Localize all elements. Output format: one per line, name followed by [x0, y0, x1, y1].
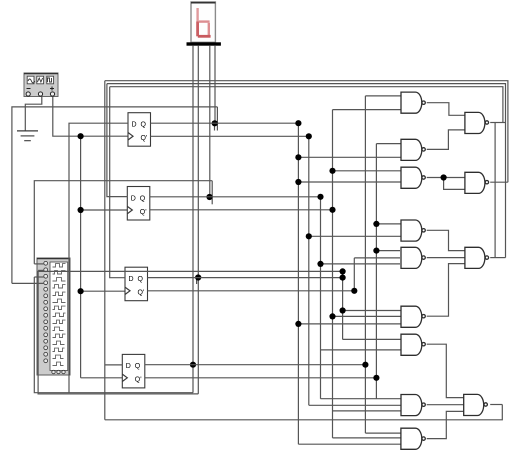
junction FF3Q' corner	[351, 288, 357, 294]
node bus FF2Q vertical	[320, 197, 322, 399]
nand gate U7b	[401, 139, 425, 160]
junction G3 output	[441, 174, 447, 180]
feedback top line 3	[110, 87, 503, 123]
wire FF2Q to gate U8b input	[321, 263, 401, 265]
wire to gate U7a in1 from FF4Q bus	[365, 95, 401, 97]
wire display input B	[209, 46, 211, 197]
wire display input C	[197, 46, 199, 394]
D flip-flop U4	[122, 354, 145, 388]
wire FF2Q' to gate U9c in2	[333, 437, 401, 439]
wire clock to FF4	[81, 377, 123, 379]
D flip-flop U2	[127, 187, 150, 221]
wire FF2Q to gate U9b in1	[321, 398, 402, 400]
svg-text:Q': Q'	[138, 290, 145, 297]
wire U6a output	[490, 122, 505, 124]
wire FF4 Q net to analyzer ch3	[34, 277, 193, 393]
wire clock rail vertical	[80, 136, 82, 378]
wire FF2Q to gate U9x input	[321, 349, 402, 351]
wire display input A	[214, 46, 216, 124]
segment e (red)	[196, 22, 199, 37]
junction FF1Q G6	[295, 321, 301, 327]
junction FF3Q T2	[340, 268, 346, 274]
svg-text:Q: Q	[141, 122, 147, 129]
wire FF2 Q net drop	[211, 181, 213, 205]
seven-segment display U5	[191, 2, 215, 42]
logic analyzer XLA1	[37, 258, 70, 375]
nand gate U8a	[401, 220, 425, 241]
wire FF4Q to gate U9c in1	[365, 432, 401, 434]
function generator XFG1	[24, 73, 58, 97]
wire G4 output to U6c	[427, 230, 465, 250]
svg-text:Q: Q	[138, 276, 144, 283]
junction FF4Q' corner	[373, 375, 379, 381]
wire FF1 Q net drop at right	[216, 107, 218, 131]
wire G3 output branch to U6b in2	[444, 178, 465, 190]
wire FF1Q to gate U7c input	[298, 181, 401, 183]
wire FF3Q to gate U9a in1	[343, 310, 402, 312]
wire clock to FF3	[81, 290, 125, 292]
junction FF3Q G6	[340, 307, 346, 313]
feedback top line 2	[107, 84, 506, 258]
wire FF4Q' to gate U7b in1	[376, 143, 401, 145]
wire FF1Q' to gate U9b input	[309, 404, 402, 406]
wire FF1 Q output	[151, 122, 299, 124]
ground symbol	[17, 131, 38, 141]
junction FF2Q' corner	[329, 207, 335, 213]
nand gate U6b	[465, 172, 489, 193]
feedback inner right vertical	[494, 123, 496, 258]
wire FF1 Q' output	[151, 135, 309, 137]
wire FG common to ground	[25, 97, 42, 131]
nand gate U9a	[401, 306, 425, 327]
wire FF2Q' to gate U7c in1	[333, 170, 402, 172]
nand gate U7c	[401, 167, 425, 188]
feedback bottom loop from gate U10	[105, 405, 503, 420]
svg-text:Q: Q	[140, 195, 146, 202]
nand gate U9b	[401, 395, 425, 416]
junction clock-FF1	[78, 133, 84, 139]
analyzer channel terminals	[44, 261, 65, 373]
junction display C / FF3 Q	[195, 274, 201, 280]
node bus FF2Q' vertical	[332, 110, 334, 438]
wire analyzer ch2 stub	[38, 269, 44, 271]
wire analyzer ch1 stub	[34, 263, 44, 265]
nand gate U7a	[401, 92, 425, 113]
junction display A / FF1 Q	[212, 120, 218, 126]
segment f (red)	[196, 8, 198, 22]
wire FF2 Q net to analyzer ch1	[34, 181, 212, 264]
node bus FF1Q' vertical	[308, 136, 310, 405]
node bus FF4Q' vertical	[375, 144, 377, 399]
junction FF2Q G5	[317, 261, 323, 267]
wire clock to FF2	[81, 209, 128, 211]
wire G1 output to U6a	[427, 103, 465, 116]
wire FF3 Q' output	[148, 290, 355, 292]
D flip-flop U1	[128, 113, 151, 147]
junction display D / FF4 Q	[190, 362, 196, 368]
junction FF1Q corner	[295, 120, 301, 126]
junction FF1Q' corner	[306, 133, 312, 139]
display base bar	[187, 42, 221, 45]
junction clock-FF3	[78, 288, 84, 294]
wire G5 output to U6c	[427, 257, 465, 259]
junction FF2Q' G3	[329, 168, 335, 174]
wire G9 output to U10	[427, 411, 464, 438]
wire G3 output to U6b	[427, 177, 465, 179]
node bus FF4Q vertical	[364, 96, 366, 433]
junction FF2Q' G6	[329, 313, 335, 319]
wire G8 output to U10	[427, 404, 464, 406]
svg-text:D: D	[131, 195, 136, 202]
nand gate U8b	[401, 247, 425, 268]
svg-text:Q': Q'	[140, 209, 147, 216]
segment d (red)	[198, 35, 211, 38]
feedback left vertical to FF3 D	[110, 87, 125, 278]
wire FF3 Q output	[148, 277, 343, 279]
wire FF1 D feed	[69, 123, 128, 393]
wire FF2 Q output	[150, 196, 321, 198]
junction FF1Q' G4	[306, 233, 312, 239]
wire FF1Q to gate U9c input	[298, 443, 401, 445]
wire display input D	[192, 46, 194, 393]
junction display B / FF2 Q	[206, 194, 212, 200]
feedback top line 1	[105, 81, 508, 183]
wire FF4Q' to gate U8b in1	[376, 250, 400, 252]
junction clock-FF2	[78, 207, 84, 213]
wire FF4 D stub	[105, 364, 123, 366]
wire FG plus terminal to clock rail	[53, 97, 128, 137]
junction FF4Q' G5	[373, 248, 379, 254]
junction FF4Q corner	[362, 362, 368, 368]
wire FF4 Q output	[145, 364, 365, 366]
svg-text:D: D	[126, 363, 131, 370]
stub below junction C	[196, 278, 198, 285]
wire FF4 Q' output	[145, 377, 377, 379]
nand gate U9x	[401, 334, 425, 355]
wire FF1Q to gate U7b input	[298, 156, 401, 158]
node bus FF3Q vertical	[342, 271, 344, 339]
wire FF4Q' to gate U8a in1	[376, 223, 401, 225]
wire FF2Q' to gate U9b in3	[333, 410, 402, 412]
nand gate U10	[464, 394, 488, 415]
wire FF3Q to gate U9x in1	[343, 338, 402, 340]
D flip-flop U3	[125, 267, 148, 301]
wire FF3 Q net to analyzer ch2	[38, 271, 343, 394]
svg-text:Q': Q'	[141, 135, 148, 142]
node bus FF3Q' vertical	[353, 258, 355, 291]
svg-text:D: D	[132, 122, 137, 129]
wire analyzer ch4 stub	[12, 282, 44, 284]
svg-text:D: D	[129, 276, 134, 283]
analyzer waveform traces	[53, 264, 66, 366]
node bus FF1Q vertical	[297, 123, 299, 444]
wire analyzer ch3 stub	[34, 276, 44, 278]
junction FF1Q G2	[295, 154, 301, 160]
wire FF2Q' to gate U9a in2	[333, 315, 402, 317]
wire U10 output	[490, 404, 502, 406]
wire G7 output to U10	[427, 344, 464, 397]
svg-text:Q: Q	[135, 363, 141, 370]
wire FF1Q' to gate U8a input	[309, 235, 401, 237]
wire FF3Q' to gate U8b in2	[354, 257, 400, 259]
wire FF2 Q' output	[150, 209, 333, 211]
wire FF1Q to gate U9a input	[298, 323, 401, 325]
junction FF4Q' G4	[373, 221, 379, 227]
segment g (red)	[199, 20, 210, 22]
junction FF1Q G3	[295, 179, 301, 185]
feedback left vertical to FF4 D	[104, 81, 106, 420]
nand gate U6a	[465, 112, 489, 133]
nand gate U9c	[401, 428, 425, 449]
feedback left vertical to FF2 D	[107, 84, 127, 197]
wire G2 output to U6a	[427, 130, 465, 150]
wire to gate U7a in2 from FF2Q' bus	[333, 109, 402, 111]
svg-text:Q': Q'	[135, 377, 142, 384]
junction FF2Q corner	[317, 194, 323, 200]
wire U6c output	[490, 257, 505, 259]
segment c (red)	[208, 23, 210, 36]
wire G6 output to U6c	[427, 264, 465, 317]
wire U6b output	[490, 181, 508, 183]
nand gate U6c	[465, 247, 489, 268]
wire FF1 Q net to analyzer ch4 (left loop)	[12, 107, 218, 284]
junction FF3Q corner	[340, 275, 346, 281]
stub below junction A	[214, 123, 216, 130]
